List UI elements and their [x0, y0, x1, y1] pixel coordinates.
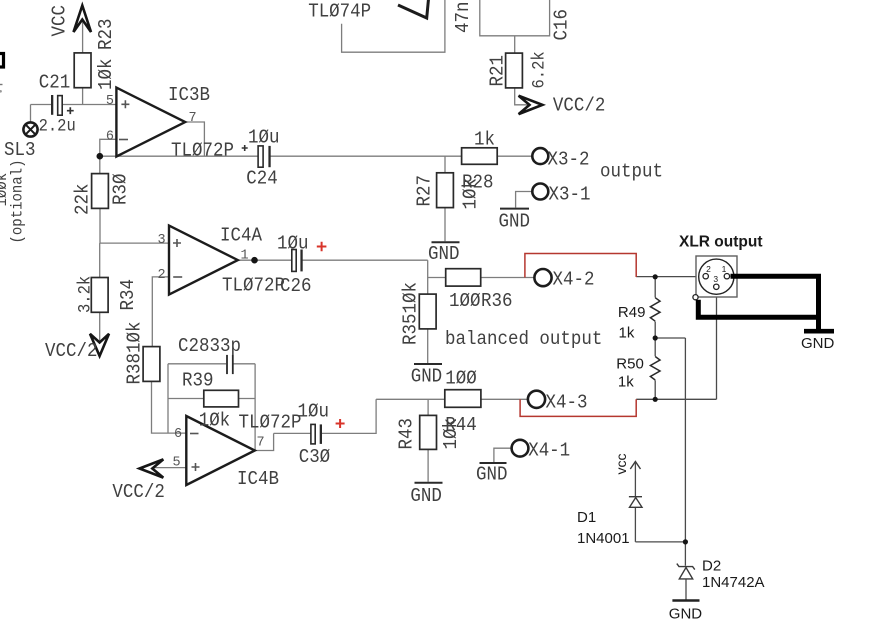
svg-text:47n: 47n — [452, 2, 474, 33]
svg-text:GND: GND — [669, 606, 703, 623]
svg-text:7: 7 — [189, 111, 197, 126]
svg-text:2.2u: 2.2u — [39, 116, 76, 136]
svg-text:balanced output: balanced output — [445, 328, 602, 350]
svg-text:XLR output: XLR output — [679, 234, 763, 251]
svg-text:R39: R39 — [182, 370, 213, 392]
svg-text:R351Øk: R351Øk — [400, 282, 422, 345]
svg-text:D2: D2 — [702, 558, 721, 575]
svg-text:GND: GND — [411, 366, 442, 388]
svg-text:C3Ø: C3Ø — [299, 446, 330, 468]
svg-text:TLØ74P: TLØ74P — [308, 1, 371, 23]
svg-text:1k: 1k — [619, 325, 635, 342]
svg-text:6: 6 — [106, 130, 114, 145]
svg-text:5: 5 — [106, 94, 114, 109]
svg-text:X3-1: X3-1 — [549, 184, 591, 206]
svg-text:1Øk: 1Øk — [95, 59, 117, 90]
svg-text:IC4A: IC4A — [220, 225, 263, 247]
svg-text:output: output — [600, 161, 663, 183]
svg-text:GND: GND — [476, 464, 507, 486]
svg-text:1Øu: 1Øu — [277, 233, 308, 255]
svg-text:1: 1 — [722, 264, 727, 274]
svg-text:VCC/2: VCC/2 — [45, 340, 97, 362]
svg-text:R36: R36 — [481, 290, 512, 312]
svg-text:VCC/2: VCC/2 — [112, 481, 164, 503]
svg-text:1N4001: 1N4001 — [577, 530, 630, 547]
svg-text:D1: D1 — [577, 509, 596, 526]
svg-text:R50: R50 — [616, 356, 644, 373]
svg-text:R23: R23 — [95, 19, 117, 50]
svg-text:1: 1 — [241, 249, 249, 264]
svg-text:SL3: SL3 — [4, 139, 35, 161]
svg-text:C24: C24 — [246, 168, 277, 190]
svg-text:R49: R49 — [618, 304, 646, 321]
svg-text:1N4742A: 1N4742A — [702, 574, 765, 591]
svg-text:(optional): (optional) — [10, 160, 27, 244]
svg-text:1ØØk: 1ØØk — [0, 173, 11, 207]
svg-text:X4-3: X4-3 — [546, 392, 588, 414]
svg-text:TLØ72P: TLØ72P — [222, 275, 285, 297]
svg-text:R43: R43 — [396, 418, 418, 449]
svg-text:C16: C16 — [551, 9, 573, 40]
svg-text:2: 2 — [706, 264, 711, 274]
svg-text:GND: GND — [499, 211, 530, 233]
svg-text:1k: 1k — [618, 374, 634, 391]
svg-text:22k: 22k — [72, 184, 94, 215]
svg-text:GND: GND — [428, 243, 459, 265]
svg-text:X4-1: X4-1 — [528, 440, 570, 462]
svg-text:3: 3 — [158, 233, 166, 248]
svg-text:1Øu: 1Øu — [248, 127, 279, 149]
svg-text:6: 6 — [174, 427, 182, 442]
svg-text:GND: GND — [801, 335, 835, 352]
svg-text:3: 3 — [713, 274, 718, 284]
svg-text:1ØØ: 1ØØ — [449, 290, 480, 312]
svg-text:VCC: VCC — [49, 5, 71, 36]
svg-text:7: 7 — [257, 436, 265, 451]
svg-text:TLØ72P: TLØ72P — [239, 412, 302, 434]
svg-text:5: 5 — [173, 456, 181, 471]
svg-text:6.2k: 6.2k — [529, 51, 549, 88]
svg-text:TLØ72P: TLØ72P — [171, 140, 234, 162]
svg-text:VCC/2: VCC/2 — [553, 95, 605, 117]
svg-text:3.2k: 3.2k — [75, 276, 95, 313]
svg-text:IC4B: IC4B — [237, 468, 279, 490]
svg-text:C21: C21 — [39, 71, 70, 93]
svg-text:R27: R27 — [414, 175, 436, 206]
svg-text:IC3B: IC3B — [168, 84, 210, 106]
svg-text:C2833p: C2833p — [178, 335, 241, 357]
svg-text:R3Ø: R3Ø — [109, 174, 131, 205]
svg-text:R21: R21 — [487, 55, 509, 86]
svg-text:1Øk: 1Øk — [460, 178, 482, 209]
svg-text:R34: R34 — [117, 279, 139, 310]
svg-text:X4-2: X4-2 — [553, 269, 595, 291]
svg-text:1Øk: 1Øk — [199, 410, 230, 432]
svg-text:C26: C26 — [280, 275, 311, 297]
svg-text:2: 2 — [158, 268, 166, 283]
svg-text:R381Øk: R381Øk — [124, 322, 146, 385]
svg-text:1Øk: 1Øk — [440, 418, 462, 449]
svg-text:vcc: vcc — [613, 454, 629, 475]
svg-text:GND: GND — [410, 485, 441, 507]
svg-text:1ØØ: 1ØØ — [445, 368, 476, 390]
svg-text:X3-2: X3-2 — [548, 149, 590, 171]
svg-text:1k: 1k — [474, 129, 495, 151]
svg-text:1Øu: 1Øu — [298, 401, 329, 423]
